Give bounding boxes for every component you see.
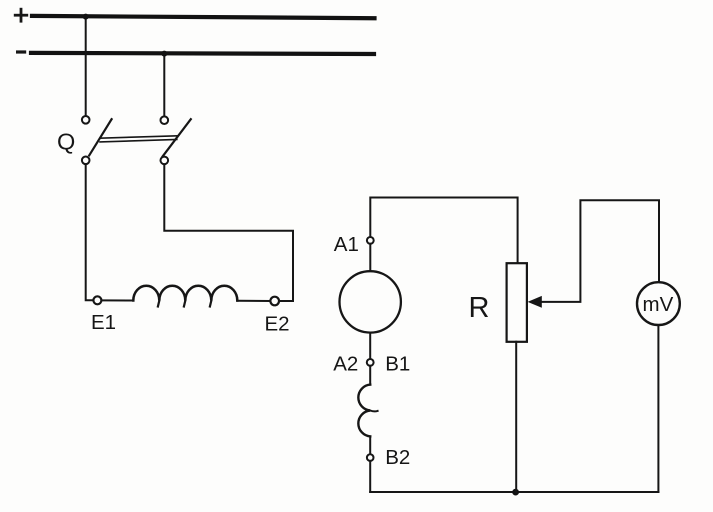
wire: series coil to B2 <box>369 436 371 454</box>
terminal E2 <box>270 297 279 306</box>
terminal E1 <box>93 296 101 304</box>
field coil (inductor E1-E2) <box>133 286 237 301</box>
terminal B2 <box>367 454 374 461</box>
switch Q blade 2 <box>163 119 191 156</box>
label + (positive rail) <box>15 9 27 21</box>
junction dot on bottom rail <box>512 489 519 496</box>
switch Q blade 1 <box>89 119 111 155</box>
svg-text:B2: B2 <box>385 446 410 469</box>
label - (negative rail) <box>18 50 25 53</box>
rheostat R body <box>507 263 527 342</box>
wire: E1 to field coil <box>102 299 134 301</box>
series coil cusp tail <box>370 410 377 413</box>
coil cusp tick 2 <box>184 301 185 307</box>
wire: switch pole 2 down and around to E2 <box>164 164 293 301</box>
terminal A1 <box>367 237 374 244</box>
switch Q upper contact 2 <box>161 116 169 124</box>
svg-text:R: R <box>469 292 490 324</box>
wire: rheostat bottom to bottom rail <box>515 342 517 492</box>
svg-text:E2: E2 <box>265 313 290 336</box>
wire: top bus of motor circuit (to rheostat) <box>370 198 517 264</box>
svg-text:B1: B1 <box>385 352 410 375</box>
terminal A2/B1 <box>367 359 374 366</box>
switch Q linkage bar (double line) <box>100 136 177 142</box>
wire: B1 to series coil <box>369 366 371 385</box>
junction dot on - bus <box>161 51 167 57</box>
wire: drop from + bus to switch pole 1 <box>85 17 87 116</box>
rheostat wiper arrow head <box>528 296 542 308</box>
wire: drop from - bus to switch pole 2 <box>163 54 165 116</box>
wire: motor to A2 <box>369 333 371 359</box>
switch Q lower contact 1 <box>82 157 90 165</box>
svg-text:A2: A2 <box>333 352 358 375</box>
voltmeter mV body <box>637 282 680 325</box>
motor armature M <box>340 271 401 332</box>
wire: A1 to motor <box>369 244 371 271</box>
svg-text:A1: A1 <box>334 233 359 256</box>
wire: B2 down to bottom rail <box>369 461 371 492</box>
svg-text:E1: E1 <box>91 311 116 334</box>
switch Q lower contact 2 <box>161 157 169 165</box>
negative bus bar <box>31 53 374 54</box>
coil cusp tick 3 <box>210 301 211 307</box>
svg-text:mV: mV <box>643 293 674 316</box>
wire: wiper to mV branch <box>541 200 660 302</box>
junction dot on + bus <box>83 14 89 20</box>
series coil (inductor B1-B2) <box>358 385 370 437</box>
wire: mV down to bottom rail <box>657 325 659 492</box>
svg-text:Q: Q <box>57 128 75 154</box>
positive bus bar <box>32 16 375 18</box>
wire: switch pole 1 down to E1 <box>86 164 94 300</box>
wire: field coil to E2 <box>237 300 270 302</box>
coil cusp tick 1 <box>158 301 159 307</box>
bottom rail wire <box>370 491 658 493</box>
switch Q upper contact 1 <box>82 116 90 124</box>
